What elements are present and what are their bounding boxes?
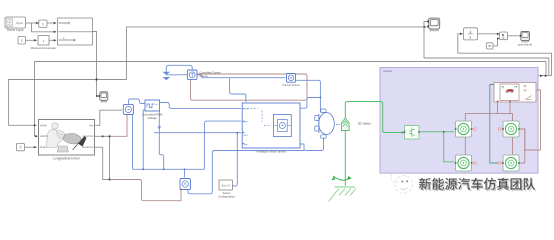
- constant block B: [18, 37, 26, 45]
- wire: current sensor to CCS control loop: [191, 74, 308, 100]
- wire: branch down to H-bridge V+: [230, 78, 246, 102]
- svg-text:s: s: [470, 36, 472, 40]
- wire: PWM minus ref down to rail: [143, 110, 145, 169]
- wire: CCS to current sensor: [197, 75, 285, 78]
- wire: vehicle body right side down: [525, 90, 541, 150]
- wire: reference to VelRef: [9, 80, 97, 126]
- Longitudinal Driver block: [39, 120, 95, 161]
- Driver Input block: [5, 17, 26, 32]
- svg-text:Current Sensor: Current Sensor: [282, 83, 300, 87]
- wire: Info output: [95, 110, 123, 125]
- driver figure: [52, 123, 58, 129]
- wire: feedback to VelFdbk: [35, 62, 38, 137]
- wire: SQ1 bottom to rail: [132, 115, 134, 170]
- wire: H-bridge REF rail down: [204, 121, 241, 169]
- svg-text:Grade: Grade: [40, 146, 47, 149]
- Scope1 (reference speed): [99, 92, 108, 102]
- wire: H-bridge OUT- loop to motor minus: [300, 138, 324, 150]
- wire: AccelCmd branch down: [109, 136, 111, 179]
- svg-text:Driver Input: Driver Input: [7, 28, 24, 32]
- svg-text:Vehicle: Vehicle: [383, 69, 392, 73]
- wire: BL top to TL bottom: [464, 137, 466, 155]
- wire: CCS left loop: [166, 65, 192, 75]
- wire: voltage sensor top to rail: [184, 169, 186, 177]
- wire: y61 right end down: [545, 62, 547, 76]
- wire: PWM block pwm out to H-bridge: [160, 103, 242, 109]
- Scope km/h: [518, 32, 533, 47]
- svg-text:REV: REV: [244, 135, 249, 137]
- Wheel BR: [502, 155, 520, 171]
- wire: right wheels to right bus: [519, 129, 525, 163]
- wire: H-bridge OUT+ loop: [300, 98, 320, 109]
- rotation sensor pentagon (DC Motor port): [341, 118, 370, 131]
- wire: reference to scope1: [97, 80, 99, 97]
- svg-text:Controlled Current: Controlled Current: [200, 70, 221, 74]
- wire: vehicle speed out of box: [532, 76, 552, 83]
- Solver Configuration: [218, 180, 235, 198]
- constant 3.6 block: [486, 43, 493, 49]
- wire: branch to switch port2: [32, 23, 57, 32]
- wire: solver config up: [232, 133, 237, 186]
- node: reference junction: [95, 78, 97, 80]
- node: accel junction: [109, 135, 111, 137]
- wire: motor case to ground: [344, 131, 346, 186]
- dashed link motor to pentagon: [336, 124, 341, 126]
- wire: DecelCmd output: [95, 147, 109, 179]
- svg-text:PWM: PWM: [244, 109, 250, 111]
- wire: product to scope km/h: [508, 35, 519, 37]
- wire: gearbox to wheels rail: [419, 131, 454, 133]
- svg-text:DC Motor: DC Motor: [358, 121, 371, 125]
- wire: reciprocal to product: [478, 33, 499, 35]
- Wheel BL: [455, 155, 473, 171]
- svg-text:Configuration: Configuration: [218, 194, 235, 198]
- Scope (2-input, top right): [427, 18, 440, 31]
- wire: constant to product: [493, 39, 498, 46]
- Voltage Sensor: [180, 179, 191, 191]
- Grade constant block: [17, 143, 25, 150]
- svg-text:1: 1: [42, 22, 44, 26]
- svg-text:0: 0: [20, 146, 22, 150]
- wire: grade constant to Grade port: [25, 146, 37, 148]
- wire: H-bridge REV long: [154, 132, 241, 134]
- svg-text:Source: Source: [200, 74, 209, 78]
- svg-text:Signal: Signal: [16, 22, 23, 25]
- wire: right wheels teal rail: [490, 85, 502, 164]
- wire: reciprocal branch x457.8: [458, 34, 463, 53]
- svg-text:ref: ref: [155, 103, 158, 106]
- svg-text:REF: REF: [244, 121, 249, 123]
- svg-text:Manual Accelerator: Manual Accelerator: [31, 46, 57, 50]
- wire: SQ1 PS output down-left: [111, 115, 127, 137]
- Reciprocal block 1/s: [460, 28, 478, 40]
- H-Bridge block: [242, 103, 300, 153]
- wire: motor shaft to gearbox: [345, 102, 403, 133]
- gain block A: [39, 20, 47, 28]
- Switch block: [58, 18, 93, 45]
- wire: BR top to TR bottom: [512, 137, 514, 155]
- wire: driver input to block A: [26, 22, 39, 24]
- arrowheads gray: [36, 22, 39, 24]
- Product block: [500, 32, 508, 40]
- wire: reference net from switch output: [93, 32, 97, 80]
- Current Sensor: [282, 74, 300, 88]
- vehicle body legs down: [498, 102, 511, 114]
- svg-text:Info: Info: [89, 124, 94, 127]
- Wheel TL: [455, 121, 473, 137]
- wire: bottom rail: [133, 168, 205, 170]
- vehicle area box: [380, 68, 538, 174]
- svg-text:BRK: BRK: [244, 145, 249, 147]
- mechanical rotational reference: [329, 176, 357, 202]
- Wheel TR: [502, 121, 520, 137]
- svg-text:DecelCmd: DecelCmd: [82, 146, 94, 149]
- svg-text:1: 1: [469, 30, 471, 34]
- wire: decel to voltage sensor maroon: [110, 180, 181, 201]
- DC Motor: [315, 109, 335, 138]
- wire: block A to switch port1: [47, 22, 56, 24]
- Simple Gear box: [404, 126, 420, 140]
- svg-text:H-Bridge (Motor driver): H-Bridge (Motor driver): [256, 149, 287, 153]
- svg-text:speed km/h: speed km/h: [518, 43, 533, 47]
- svg-text:VelRef: VelRef: [40, 124, 47, 127]
- svg-text:f(x) = 0: f(x) = 0: [222, 183, 231, 187]
- Manual Accelerator block: [38, 36, 49, 46]
- wire: current sensor right to motor plus: [296, 80, 321, 111]
- electrical reference arrows: [163, 72, 171, 80]
- logo: [391, 173, 412, 193]
- wire: PWM ref down with arrow: [159, 111, 163, 169]
- svg-text:Voltage: Voltage: [148, 116, 158, 120]
- wire: voltage sensor net to OUT-: [188, 151, 304, 194]
- wire: reference to scope2 port2: [97, 27, 427, 80]
- Simulink-PS Converter SQ1: [123, 104, 133, 114]
- svg-text:Longitudinal Driver: Longitudinal Driver: [53, 157, 81, 161]
- node: speed junction: [540, 75, 543, 77]
- wire: scope1 branch vertical x424: [424, 21, 427, 58]
- Vehicle Body block: [494, 83, 536, 103]
- wire: SQ1 top to PWM plus: [128, 99, 145, 104]
- watermark text 新能源汽车仿真团队: [420, 179, 536, 191]
- pink open connectors: [472, 128, 504, 164]
- wire: long feedback line y61: [35, 61, 547, 63]
- wheels maroon: TL top to bus: [465, 114, 512, 121]
- svg-text:1: 1: [21, 39, 23, 43]
- node: decel junction: [109, 178, 111, 180]
- wire: AccelCmd output: [95, 135, 110, 137]
- Controlled PWM Voltage block: [142, 100, 163, 120]
- Controlled Current Source: [187, 70, 221, 80]
- wire: manual accelerator to switch port3: [49, 39, 56, 41]
- wire: block B to manual accelerator: [26, 39, 37, 41]
